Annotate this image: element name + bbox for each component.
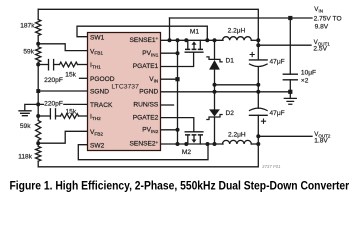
svg-text:D1: D1: [226, 57, 235, 64]
svg-text:SENSE1+​: SENSE1+​: [130, 36, 159, 44]
svg-text:3737 F01: 3737 F01: [262, 164, 281, 169]
svg-text:47μF: 47μF: [270, 59, 285, 66]
wire PGOOD stub: [80, 77, 88, 79]
resistor R5 59k: [36, 121, 41, 141]
label C5 10uF x2: [301, 69, 316, 76]
label L2 2.2uH: [228, 132, 246, 139]
svg-text:PGND: PGND: [139, 89, 158, 96]
capacitor C4 47uF: [257, 92, 259, 108]
node VIN square: [288, 16, 292, 20]
svg-text:59k: 59k: [20, 123, 31, 130]
svg-text:PGATE2: PGATE2: [133, 114, 159, 121]
svg-text:Figure 1. High Efficiency, 2-P: Figure 1. High Efficiency, 2-Phase, 550k…: [10, 180, 350, 193]
svg-text:15k: 15k: [65, 71, 76, 78]
label VOUT1: [314, 39, 331, 46]
label D2: [226, 110, 235, 117]
label C3 47uF: [270, 59, 285, 66]
wire top feedback line to VOUT1: [38, 9, 258, 40]
svg-text:D2: D2: [226, 110, 235, 117]
node TRACK: [36, 102, 40, 106]
inductor L2 2.2uH: [223, 140, 252, 144]
svg-text:RUN/SS: RUN/SS: [133, 102, 159, 109]
IC left pin labels: [90, 34, 105, 41]
wire SGND: [38, 90, 87, 92]
svg-text:59k: 59k: [23, 49, 34, 56]
capacitor C1 220pF: [49, 60, 54, 70]
label 59k: [23, 49, 34, 56]
label 187k: [20, 22, 35, 29]
wire VFB1: [38, 44, 87, 51]
ground (right): [284, 98, 296, 104]
svg-text:×2: ×2: [301, 78, 309, 85]
svg-text:220pF: 220pF: [44, 100, 63, 107]
capacitor C5 10uF x2: [289, 18, 291, 74]
label VOUT2: [314, 131, 331, 138]
svg-text:47μF: 47μF: [270, 110, 285, 117]
svg-text:2.2μH: 2.2μH: [228, 27, 246, 34]
wire RUN/SS stub: [161, 104, 174, 106]
label D1: [226, 57, 235, 64]
label 118k: [18, 153, 33, 160]
svg-text:220pF: 220pF: [44, 77, 63, 84]
diode D1 (schottky): [207, 38, 222, 92]
svg-text:2.75V TO: 2.75V TO: [314, 15, 342, 22]
svg-text:M1: M1: [190, 28, 199, 35]
label 220pF (1): [44, 77, 63, 84]
caption: [10, 180, 350, 193]
svg-text:2.2μH: 2.2μH: [228, 132, 246, 139]
svg-text:2.5V: 2.5V: [313, 46, 327, 53]
label 15k (2): [65, 109, 76, 116]
svg-text:TRACK: TRACK: [90, 102, 113, 109]
wire VFB2: [38, 131, 87, 143]
label M2: [182, 149, 191, 156]
inductor L1 2.2uH: [223, 37, 252, 41]
wire PVIN1 stub: [161, 52, 178, 54]
op-amp U1 LTC3737 body: [88, 33, 161, 151]
svg-text:1.8V: 1.8V: [314, 137, 328, 144]
transistor M1: [184, 38, 209, 52]
wire VIN column: [177, 40, 179, 144]
diode D2 (schottky): [207, 92, 222, 146]
wire: [38, 115, 50, 117]
wire SW1 loop: [77, 26, 207, 40]
IC name LTC3737: [111, 84, 139, 91]
ground (left): [25, 104, 38, 110]
label 220pF (2): [44, 99, 63, 106]
svg-text:PGATE1: PGATE1: [133, 63, 159, 70]
svg-text:SW2: SW2: [90, 142, 105, 149]
label 59k (2): [20, 123, 31, 130]
node SGND: [36, 89, 40, 93]
svg-text:10μF: 10μF: [301, 69, 316, 76]
svg-text:M2: M2: [182, 149, 191, 156]
svg-text:LTC3737: LTC3737: [111, 84, 139, 91]
capacitor C3 47uF: [250, 59, 268, 61]
svg-text:118k: 118k: [18, 153, 33, 160]
svg-text:187k: 187k: [20, 22, 35, 29]
resistor R2 59k: [37, 44, 39, 47]
wire VIN pin stub: [161, 78, 178, 80]
wire PGATE1: [161, 52, 194, 66]
resistor R3 15k: [54, 64, 60, 66]
wire PGND line: [161, 91, 291, 93]
label 15k (1): [65, 71, 76, 78]
wire VOUT2 bottom rail: [38, 144, 258, 167]
wire VIN line: [169, 18, 171, 40]
transistor M2: [184, 132, 209, 146]
wire VOUT2: [256, 134, 260, 138]
capacitor C2 220pF: [50, 109, 55, 119]
label M1: [190, 28, 199, 35]
node VFB2: [36, 141, 40, 145]
svg-text:15k: 15k: [65, 109, 76, 116]
resistor R6 118k: [37, 143, 39, 146]
svg-text:SW1: SW1: [90, 34, 105, 41]
wire PGATE2: [161, 118, 194, 132]
wire: [38, 64, 48, 66]
node VFB1: [36, 42, 40, 46]
svg-text:PGOOD: PGOOD: [90, 76, 115, 83]
wire TRACK: [38, 103, 87, 105]
resistor R1 187k: [37, 9, 39, 19]
label VIN: [314, 6, 323, 13]
resistor R4 15k: [56, 115, 61, 117]
wire gnd link (D1 anode to C3): [215, 84, 259, 86]
node ITH2 RC: [36, 114, 40, 118]
wire SENSE1 rail: [161, 39, 224, 41]
wire VOUT1: [257, 40, 259, 60]
wire gnd column segment: [37, 65, 39, 120]
svg-text:SGND: SGND: [90, 89, 109, 96]
wire SW2 loop: [78, 144, 208, 160]
IC right pin labels: [130, 36, 159, 44]
node ITH1 RC: [36, 63, 40, 67]
label L1 2.2uH: [228, 27, 246, 34]
label C4 47uF: [270, 110, 285, 117]
wire PVIN2 stub: [161, 129, 178, 131]
wire SENSE2 rail: [161, 143, 224, 145]
svg-text:SENSE2+​: SENSE2+​: [130, 140, 159, 148]
svg-text:9.8V: 9.8V: [315, 23, 329, 30]
